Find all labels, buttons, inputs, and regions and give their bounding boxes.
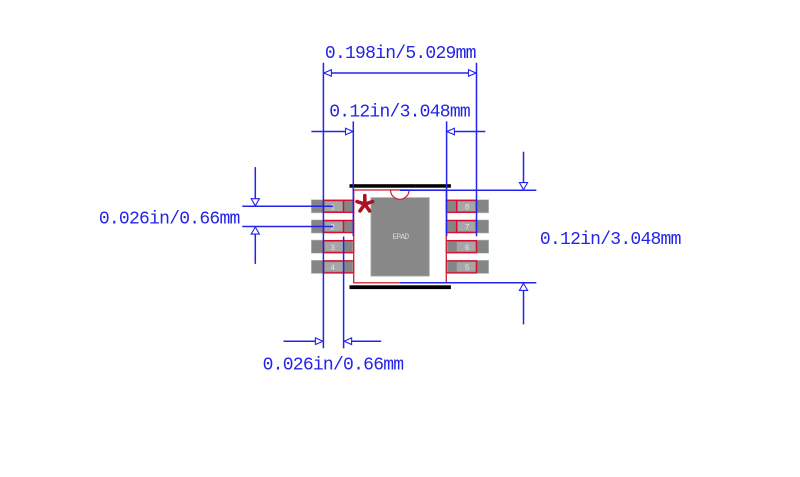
svg-text:0.026in/0.66mm: 0.026in/0.66mm [263,355,404,375]
pad 8 paste edge [456,200,458,212]
dim4 vertical line upper [523,152,525,183]
svg-text:5: 5 [465,264,470,273]
dim5 arrow right [344,338,352,345]
pad 1 paste [325,202,343,211]
dim5 dimension line right [350,340,381,342]
dim3 arrow up [251,227,259,234]
pad 2 paste edge [343,221,345,233]
svg-text:8: 8 [465,203,470,212]
dim4 extension line bottom [400,282,536,284]
dim2 arrow left [346,128,354,135]
pad 2 paste [325,222,343,231]
svg-text:EPAD: EPAD [392,233,409,242]
dim1 arrow left [324,70,332,77]
svg-text:3: 3 [330,244,335,253]
pad 7 paste edge [456,221,458,233]
dim2 dimension line left [311,131,353,133]
dim1 arrow right [469,70,477,77]
dim4 extension line top [400,189,536,191]
EPAD [371,198,429,277]
pin 1 notch [391,190,410,199]
dim3 leader line pin2 [242,226,333,228]
pad 6 mask outline [446,241,476,253]
dim3 leader line pin1 [242,205,333,207]
pin 1 marker asterisk [357,196,373,211]
dim3 vertical line lower [254,234,256,264]
dim5 extension line right [343,237,345,349]
pad 6 copper [447,240,488,253]
pad 8 mask outline [446,200,476,212]
svg-text:1: 1 [330,203,335,212]
dim1 extension line left [322,63,324,349]
svg-text:0.198in/5.029mm: 0.198in/5.029mm [325,44,476,64]
svg-text:0.12in/3.048mm: 0.12in/3.048mm [329,103,470,123]
dim2 arrow right [447,128,455,135]
dim2 extension line left [352,121,354,236]
svg-text:4: 4 [330,264,335,273]
pad 4 copper [312,261,353,274]
dim2 dimension line right [446,131,485,133]
dim1 dimension line [323,72,476,74]
svg-text:0.12in/3.048mm: 0.12in/3.048mm [540,230,681,250]
dim5 arrow left [315,338,323,345]
dim4 arrow down [519,183,527,190]
dim1 extension line right [476,63,478,237]
svg-text:7: 7 [465,224,470,233]
svg-text:0.026in/0.66mm: 0.026in/0.66mm [99,210,240,230]
pad 7 mask outline [446,221,476,233]
dim3 arrow down [251,199,259,206]
pad 3 copper [312,240,353,253]
pad 2 mask outline [323,221,353,233]
package body outline [354,190,447,283]
pad 4 mask outline [323,261,353,273]
pad 7 paste [457,222,475,231]
dim4 arrow up [519,283,527,290]
pad 1 paste edge [343,200,345,212]
pad 5 paste [457,262,475,271]
pad 7 copper [447,220,488,233]
pad 3 mask outline [323,241,353,253]
top assembly bar [350,184,451,188]
pad 5 mask outline [446,261,476,273]
pad 4 paste [325,262,343,271]
pad 3 paste [325,242,343,251]
svg-text:6: 6 [465,244,470,253]
pad 5 copper [447,261,488,274]
dim4 vertical line lower [523,290,525,324]
pad 1 mask outline [323,200,353,212]
bottom assembly bar [350,285,451,289]
dim5 dimension line left [284,340,318,342]
svg-text:2: 2 [330,224,335,233]
pad 2 copper [312,220,353,233]
dim2 extension line right [446,121,448,236]
pad 8 copper [447,200,488,213]
pad 8 paste [457,202,475,211]
dim3 vertical line upper [254,167,256,199]
pad 6 paste [457,242,475,251]
pad 1 copper [312,200,353,213]
